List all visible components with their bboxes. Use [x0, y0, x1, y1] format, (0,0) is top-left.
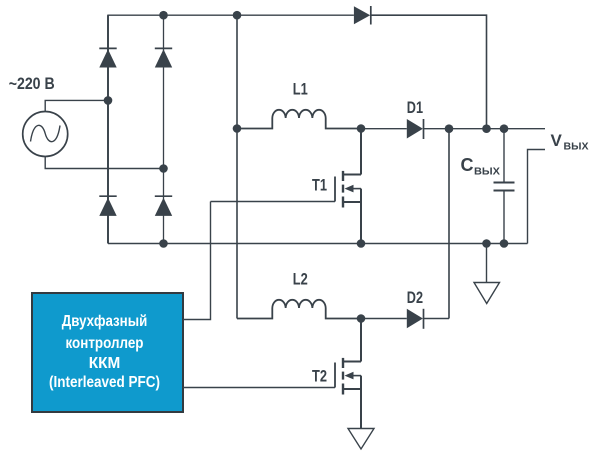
- node junction bypass return on output rail: [482, 124, 491, 133]
- node junction L2 / T2 drain / D2: [357, 314, 366, 323]
- svg-text:ВЫХ: ВЫХ: [564, 141, 589, 153]
- node junction boost feed at L1: [233, 124, 242, 133]
- wire T1 gate: [211, 201, 336, 203]
- inductor L1: [237, 110, 361, 129]
- wire controller to T1 gate: [183, 202, 211, 320]
- svg-text:V: V: [551, 131, 563, 150]
- wire AC bottom terminal: [45, 157, 163, 169]
- diode D1: [361, 119, 424, 139]
- wire left bridge leg: [107, 15, 109, 243]
- svg-text:T1: T1: [312, 176, 327, 194]
- node junction Cout top on output rail: [500, 124, 509, 133]
- wire Vout sense: [528, 150, 546, 244]
- ground T2 source: [348, 429, 374, 450]
- svg-text:D1: D1: [407, 99, 423, 117]
- node junction AC bottom to right leg: [159, 164, 168, 173]
- node junction T1 source on bottom rail: [357, 239, 366, 248]
- svg-text:ВЫХ: ВЫХ: [474, 166, 500, 178]
- wire bottom rail: [108, 243, 528, 245]
- wire boost feed rail vertical: [236, 15, 238, 318]
- inductor L2: [237, 300, 361, 319]
- svg-text:контроллер: контроллер: [66, 335, 144, 352]
- node junction ground branch on bottom rail: [482, 239, 491, 248]
- bridge diode bottom-right: [155, 196, 172, 216]
- diode D2: [361, 309, 449, 329]
- node junction AC top to left leg: [104, 96, 113, 105]
- label Vвых: [551, 131, 589, 153]
- controller box: [32, 293, 183, 412]
- label controller text: [49, 313, 160, 391]
- wire top rail from bridge to bypass diode: [108, 15, 354, 243]
- wire D2 return vertical: [448, 129, 450, 319]
- wire controller to T2 gate: [183, 387, 335, 389]
- svg-text:(Interleaved PFC): (Interleaved PFC): [49, 374, 160, 391]
- bridge diode top-left: [99, 48, 116, 67]
- wire output rail: [424, 128, 546, 130]
- node junction Cout bottom on bottom rail: [500, 239, 509, 248]
- bridge diode bottom-left: [99, 196, 116, 216]
- svg-text:L1: L1: [293, 81, 308, 99]
- transistor T2: [335, 319, 361, 429]
- svg-text:L2: L2: [293, 271, 308, 289]
- bypass diode top: [354, 6, 371, 25]
- svg-text:C: C: [461, 155, 474, 175]
- node junction top rail at boost feed: [233, 11, 242, 20]
- svg-text:Двухфазный: Двухфазный: [62, 313, 148, 330]
- ground output: [474, 244, 500, 304]
- capacitor Cout: [494, 129, 515, 244]
- svg-text:D2: D2: [407, 289, 423, 307]
- label Cвых: [461, 155, 501, 178]
- wire bypass diode to output rail: [371, 15, 487, 129]
- node junction top rail at right bridge leg: [159, 11, 168, 20]
- bridge diode top-right: [155, 48, 172, 67]
- node junction L1 / T1 drain / D1: [357, 124, 366, 133]
- svg-text:ККМ: ККМ: [89, 355, 121, 372]
- svg-text:T2: T2: [312, 368, 327, 386]
- wire AC top terminal: [45, 100, 108, 111]
- svg-text:~220 В: ~220 В: [9, 75, 55, 93]
- transistor T1: [335, 129, 361, 244]
- AC source: [23, 112, 68, 157]
- node junction D2 return on output rail: [445, 124, 454, 133]
- node junction bottom rail at right bridge leg: [159, 239, 168, 248]
- wire right bridge leg: [163, 15, 165, 243]
